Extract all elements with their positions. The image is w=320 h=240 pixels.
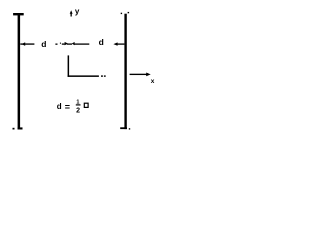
svg-text:d: d — [41, 39, 46, 49]
svg-text:=: = — [65, 102, 70, 112]
svg-text:y: y — [75, 7, 80, 16]
svg-text:d: d — [99, 37, 104, 47]
svg-text:x: x — [151, 78, 155, 85]
svg-text:2: 2 — [76, 107, 80, 114]
svg-text:d: d — [57, 102, 62, 111]
